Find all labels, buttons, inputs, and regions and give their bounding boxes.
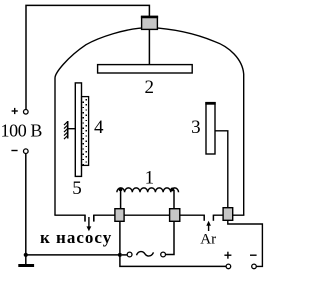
svg-text:к насосу: к насосу — [40, 228, 112, 247]
pump arrow (down) — [88, 217, 90, 228]
coil right lead — [173, 190, 175, 209]
svg-text:2: 2 — [145, 77, 155, 98]
chamber bell jar dome and side walls — [55, 28, 244, 216]
left coil feedthrough — [115, 209, 124, 222]
wire: 100V minus rail to heater junction — [25, 254, 120, 256]
svg-text:3: 3 — [191, 117, 201, 138]
top feedthrough square — [142, 16, 158, 29]
ground stub — [25, 255, 27, 264]
100V supply minus terminal — [24, 149, 29, 154]
heater coil 1 — [117, 188, 179, 192]
wall support of holder 5 (hatched) — [64, 121, 68, 139]
AC source left terminal — [127, 252, 132, 257]
bottom minus terminal — [252, 264, 257, 269]
Ar port left stub — [203, 215, 205, 221]
bottom rail from junction to plus terminal — [120, 255, 226, 267]
bottom plus terminal — [226, 264, 231, 269]
plus sign — [12, 110, 18, 112]
Ar inlet arrow (up) — [208, 224, 210, 232]
AC squiggle — [137, 252, 154, 256]
wire: minus terminal down to ground junction — [25, 154, 27, 255]
wire from electrode 3 to right feedthrough — [216, 131, 228, 208]
svg-text:4: 4 — [94, 117, 104, 138]
pump port right stub — [93, 215, 95, 222]
bottom minus sign — [250, 254, 257, 256]
chamber bottom wall right segment — [213, 214, 244, 216]
100V supply plus terminal — [24, 110, 29, 115]
minus sign — [11, 150, 17, 152]
support arm to holder — [68, 128, 76, 130]
chamber bottom wall left segment — [54, 214, 85, 216]
svg-text:5: 5 — [72, 178, 82, 199]
coil left end curl — [119, 188, 123, 192]
junction dot — [118, 253, 122, 257]
coil right end curl — [171, 188, 175, 192]
wire: AC right terminal up to right coil feedthrough — [166, 221, 174, 254]
wire top-left from +terminal to top feedthrough — [26, 5, 149, 109]
pump port left stub — [84, 215, 86, 222]
substrate holder 5 — [75, 83, 81, 176]
wire from top feedthrough to plate 2 — [148, 29, 150, 64]
wire: right feedthrough down to minus terminal — [228, 220, 263, 266]
wire: junction to AC left terminal — [122, 254, 127, 256]
bottom plus sign — [224, 254, 231, 256]
ground junction dot — [24, 253, 28, 257]
svg-text:Ar: Ar — [200, 232, 216, 248]
wire: left feedthrough down to junction — [119, 221, 121, 255]
substrate 4 (stippled) — [82, 97, 89, 166]
AC source right terminal — [161, 252, 166, 257]
electrode 3 — [206, 103, 215, 154]
chamber bottom wall middle segment — [94, 214, 205, 216]
Ar port right stub — [212, 215, 214, 221]
coil left lead — [120, 190, 122, 209]
right coil feedthrough — [170, 209, 180, 222]
ground bar — [18, 264, 34, 267]
right wire feedthrough — [223, 208, 233, 221]
svg-text:100 В: 100 В — [1, 120, 43, 140]
svg-text:1: 1 — [145, 168, 155, 189]
electrode plate 2 — [98, 65, 193, 73]
